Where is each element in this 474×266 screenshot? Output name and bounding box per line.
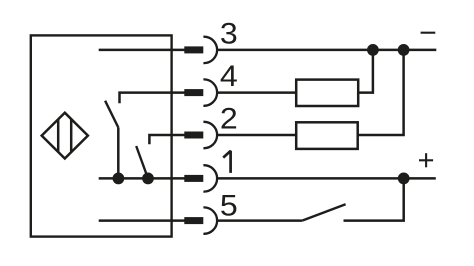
pin label 5 [220,189,238,222]
pin 3 connector [184,37,217,63]
resistor R1 [296,80,358,106]
pin label 1 [223,151,230,173]
proximity sensor symbol (diamond) [42,113,88,159]
wire external switch contact to plus rail [344,178,404,220]
wire R1 to minus rail [358,50,373,93]
svg-text:3: 3 [220,17,238,50]
pin label 2 [220,102,238,135]
pin 5 connector [184,207,217,233]
pin 2 connector [184,122,217,148]
junction dot C on plus rail [398,173,410,185]
wire pin5 inside box [99,219,193,222]
resistor R2 [296,122,358,149]
wire pin2 inside box [149,135,193,144]
external switch blade [302,204,345,220]
pin label 3 [220,17,238,50]
pin 4 connector [184,79,217,105]
plus symbol [419,153,433,167]
junction dot A on minus rail [367,44,379,56]
wire S1 to pin1 line [117,128,120,179]
svg-text:2: 2 [220,102,238,135]
wire pin1 to plus rail [217,177,436,180]
svg-text:4: 4 [220,59,238,92]
wire pin5 to external switch [217,219,302,222]
junction dot on pin1 line (S1) [113,173,125,185]
minus symbol [421,32,436,34]
wire pin4 to resistor R1 [217,91,296,94]
svg-text:5: 5 [220,189,238,222]
wire pin2 to resistor R2 [217,134,296,137]
pin 1 connector [184,165,217,191]
wire pin3 inside box [99,49,193,52]
switch S2 blade (pin2 output) [136,146,148,178]
junction dot B on minus rail [398,44,410,56]
switch S1 blade (pin4 output) [105,101,118,128]
wire pin3 to minus rail [217,49,436,52]
junction dot on pin1 line (S2) [142,173,154,185]
wire pin1 inside box [99,177,193,180]
wire R2 to minus rail [358,50,404,135]
wire pin4 inside box [120,93,194,104]
pin label 4 [220,59,238,92]
sensor body box [31,35,172,236]
